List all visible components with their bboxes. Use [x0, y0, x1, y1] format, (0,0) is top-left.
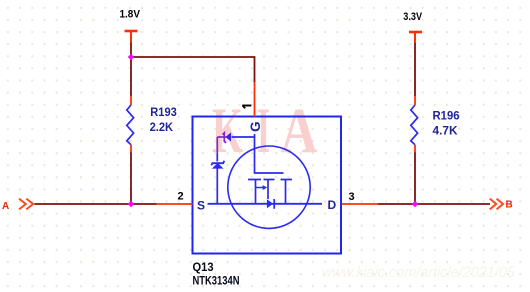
zener diode Z1 (gate side)	[225, 133, 231, 142]
S-D rail	[208, 203, 323, 205]
svg-text:B: B	[506, 199, 513, 210]
pin 1 (gate)	[254, 82, 256, 117]
svg-text:A: A	[2, 201, 9, 212]
svg-text:Q13: Q13	[193, 260, 214, 274]
svg-text:G: G	[248, 121, 263, 132]
zener diode Z2 (source side)	[212, 163, 224, 169]
svg-text:www.kiaic.com/article/2021/05: www.kiaic.com/article/2021/05	[321, 264, 516, 281]
wire B horizontal	[378, 203, 490, 205]
svg-text:2: 2	[177, 190, 183, 202]
svg-text:A: A	[281, 95, 318, 167]
wire R193 to A line	[130, 152, 132, 204]
svg-text:R196: R196	[433, 109, 460, 123]
svg-text:3: 3	[348, 191, 354, 203]
svg-text:NTK3134N: NTK3134N	[193, 274, 240, 288]
mosfet body stem	[267, 180, 269, 200]
power symbol 1.8V	[125, 31, 138, 43]
wire R196 down to B line	[414, 152, 416, 204]
svg-text:4.7K: 4.7K	[433, 124, 458, 138]
svg-text:R193: R193	[150, 105, 177, 119]
mosfet body arrow	[256, 187, 263, 189]
svg-text:2.2K: 2.2K	[150, 120, 174, 134]
pin number 1	[242, 106, 251, 109]
resistor R193	[127, 105, 134, 145]
gate branch horizontal	[232, 136, 255, 138]
svg-text:S: S	[197, 199, 205, 213]
pin 3 (drain)	[342, 203, 379, 205]
mosfet gate lead	[255, 134, 284, 173]
wire 1.8V stem to junction	[130, 43, 132, 58]
junction node B	[412, 201, 418, 207]
mosfet channel bars	[248, 179, 292, 181]
mosfet source stem	[255, 180, 257, 204]
pin 2 (source)	[157, 203, 193, 205]
mosfet circle	[228, 146, 310, 228]
resistor R196	[411, 105, 418, 145]
junction node A	[128, 201, 134, 207]
power symbol 3.3V	[409, 32, 422, 44]
wire A horizontal	[35, 203, 157, 205]
junction node at 1.8V rail	[128, 54, 134, 60]
svg-text:1.8V: 1.8V	[120, 9, 141, 21]
svg-text:D: D	[328, 198, 337, 212]
body diode D1	[267, 199, 273, 208]
wire junction down to R193	[130, 57, 132, 96]
mosfet drain stem	[285, 180, 287, 204]
wire 3.3V stem down to R196	[414, 43, 416, 96]
transistor Q13 body	[193, 117, 342, 254]
wire top horizontal to pin 1	[131, 57, 255, 82]
svg-text:3.3V: 3.3V	[403, 11, 422, 23]
pin name G	[248, 121, 263, 132]
watermark KIA	[212, 95, 318, 167]
gate branch vertical	[216, 137, 218, 155]
